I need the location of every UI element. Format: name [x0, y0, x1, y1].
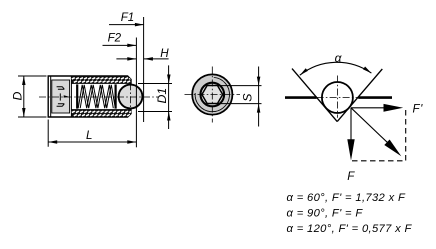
V groove left flank — [292, 69, 337, 122]
dimension F1 — [109, 11, 144, 27]
thread start line — [70, 76, 72, 117]
chamfer circle — [201, 83, 225, 107]
ball in groove — [322, 82, 353, 113]
dimension F2 — [103, 32, 137, 47]
svg-text:D: D — [10, 91, 24, 100]
angle arc — [300, 62, 372, 75]
hex socket pocket (sectioned) — [52, 80, 70, 113]
V groove right flank — [337, 69, 382, 122]
outer circle (thread major) — [192, 74, 232, 114]
thread hatching top band — [71, 76, 132, 84]
ball crosshair — [317, 76, 359, 118]
socket center tick — [59, 93, 61, 100]
extension line F2 / L — [135, 38, 137, 148]
svg-text:α: α — [335, 51, 343, 65]
dimension H — [116, 47, 169, 61]
dimension S — [218, 67, 262, 127]
thin 3/4 arc (thread minor) — [195, 77, 229, 111]
svg-text:F1: F1 — [121, 11, 135, 24]
ball — [119, 85, 143, 109]
svg-text:D1: D1 — [155, 88, 169, 104]
dimension L — [48, 120, 136, 147]
surface thick lines — [285, 96, 392, 99]
dashed construction lines — [352, 110, 406, 161]
thread hatching bottom band — [71, 109, 132, 117]
dimension D — [10, 76, 46, 117]
hex socket hidden edges (upper mark) — [57, 87, 65, 90]
svg-text:F': F' — [413, 103, 424, 116]
body outline of spring plunger — [48, 76, 131, 117]
end view crosshair — [185, 67, 241, 123]
bore lines — [71, 83, 130, 109]
socket small arrow — [64, 95, 69, 97]
force F' arrow — [351, 107, 395, 109]
hex socket hidden edges (lower mark) — [57, 104, 65, 107]
force F arrow — [350, 108, 352, 152]
svg-text:F2: F2 — [108, 32, 122, 45]
arc arrowhead right — [363, 67, 371, 74]
svg-text:H: H — [160, 47, 169, 60]
main centerline — [39, 96, 158, 98]
spring — [77, 84, 115, 108]
dimension D1 — [138, 65, 172, 129]
hexagon socket — [202, 85, 223, 103]
ball vertical centerline — [130, 83, 132, 110]
svg-text:L: L — [86, 129, 92, 142]
svg-text:F: F — [347, 170, 355, 183]
extension line F1 (ball extended position) — [143, 17, 145, 122]
svg-text:α = 120°, F' = 0,577 x F: α = 120°, F' = 0,577 x F — [287, 223, 413, 235]
resultant diagonal arrow — [351, 108, 396, 151]
svg-text:S: S — [241, 93, 255, 102]
svg-text:α = 60°, F' = 1,732 x F: α = 60°, F' = 1,732 x F — [287, 192, 406, 204]
arc arrowhead left — [300, 68, 308, 75]
end view annulus (thread relief) — [197, 79, 228, 110]
svg-text:α = 90°, F' = F: α = 90°, F' = F — [287, 208, 364, 220]
